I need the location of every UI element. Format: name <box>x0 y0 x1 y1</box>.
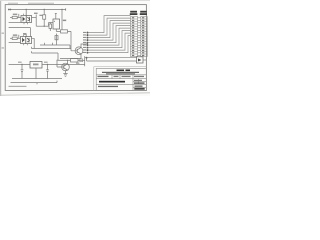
diode D2 <box>80 59 83 62</box>
resistor R3 <box>61 30 68 33</box>
node P3 <box>87 37 89 39</box>
wire J1 line lower <box>87 60 137 62</box>
ground rail <box>12 78 62 80</box>
label company name <box>117 70 125 72</box>
terminal strip TB1 <box>131 17 138 57</box>
wire K1 bottom <box>55 29 57 31</box>
node gnd junctions <box>35 78 36 79</box>
opto U3 <box>21 37 32 44</box>
wire vertical x36 <box>35 15 37 27</box>
label R1 <box>13 14 17 16</box>
wire 1 <box>88 16 131 33</box>
wire 2 <box>88 18 131 35</box>
power section <box>9 51 147 87</box>
node junction <box>44 26 45 27</box>
label pwr small 2 <box>44 62 48 63</box>
wire base node <box>36 25 48 27</box>
wire y45 link <box>40 43 70 49</box>
wire U1 out <box>32 17 37 19</box>
wire to edge <box>78 59 85 61</box>
label R4 <box>13 34 17 36</box>
wire input lower <box>9 22 21 24</box>
border frame <box>5 5 146 91</box>
scan edge left <box>0 0 1 96</box>
label Q2 <box>76 63 79 64</box>
wire 6 <box>88 28 131 45</box>
relay K1 <box>53 19 60 29</box>
wire rail stub <box>62 8 66 10</box>
wire 7 <box>88 31 131 48</box>
wire 8 <box>88 33 131 50</box>
TB2 screws <box>142 18 144 56</box>
transistor Q3 <box>62 63 70 71</box>
node P1 <box>87 32 89 34</box>
wire second input upper <box>9 27 31 29</box>
wire Q3 collector <box>67 60 69 64</box>
wire R1 to U1 <box>17 14 21 18</box>
label T1 <box>34 13 38 14</box>
transistor Q2 <box>75 47 83 55</box>
wire 3 <box>88 21 131 38</box>
TB1 screws <box>132 18 134 56</box>
resistor R1 <box>10 17 12 19</box>
node P5 <box>87 42 89 44</box>
wire V+ rail <box>11 9 62 11</box>
resistor R2 <box>43 10 45 15</box>
wire U2 gnd <box>35 68 37 79</box>
wire Q3 base <box>57 60 64 67</box>
node Q3 collector junction <box>67 60 68 61</box>
node rail junction <box>44 9 45 10</box>
label TB1 title <box>130 11 147 15</box>
label U2 <box>33 64 39 66</box>
node junction 57 <box>57 60 58 61</box>
card edge pin labels <box>83 32 86 53</box>
wire J1 feed <box>85 58 87 61</box>
wire input2 lower <box>9 42 21 44</box>
label address <box>102 72 139 73</box>
wire pwr input <box>9 64 30 66</box>
node V+ dots <box>8 9 10 11</box>
wire opto2 top pin <box>23 34 26 37</box>
wire resistor line <box>58 59 71 61</box>
node P7 <box>87 47 89 49</box>
node P2 <box>87 34 89 36</box>
wire 4 <box>88 23 131 40</box>
label row2 cells <box>98 76 109 77</box>
scan edge bottom <box>0 93 150 95</box>
opto U1 <box>21 16 32 23</box>
scan edge top <box>0 0 150 2</box>
left border zone ticks <box>2 33 4 49</box>
resistor R6 <box>55 36 58 40</box>
label small cells <box>134 80 142 81</box>
resistor R4 <box>10 37 12 39</box>
wire pwr out <box>42 64 85 66</box>
terminal strip TB2 <box>138 17 148 57</box>
wire opto1 top pin <box>25 10 27 16</box>
top border tick marks <box>8 3 54 4</box>
wire x30 drop <box>30 28 32 37</box>
wire y31 link <box>56 30 71 32</box>
wire low line <box>32 51 59 60</box>
TB links <box>138 18 141 56</box>
wire K1 top <box>55 14 57 20</box>
connector J1 <box>137 57 144 63</box>
node pwr junctions <box>21 64 22 65</box>
label TB2 title <box>140 11 147 13</box>
label K1 <box>63 20 66 22</box>
node rail junction <box>61 9 62 10</box>
wire 9 <box>88 36 131 53</box>
regulator U2 <box>30 62 42 69</box>
label fineprint <box>9 86 27 87</box>
capacitor C1 <box>21 65 24 79</box>
capacitor C2 <box>46 65 49 79</box>
wire U3 out <box>32 38 35 48</box>
wire edge vertical <box>84 56 86 66</box>
wire J1 line upper <box>87 57 137 59</box>
wire K1 coil down <box>56 34 58 46</box>
label title CONTROL RELAY CARD <box>99 81 125 83</box>
diode D1 <box>49 23 51 25</box>
wire y48.5 link <box>32 47 72 49</box>
resistor R5 <box>71 59 79 62</box>
label R2 <box>39 15 42 16</box>
node P8 <box>87 49 89 51</box>
wire x62 drop <box>61 10 63 30</box>
node rail-57 <box>56 64 57 65</box>
wire 5 <box>88 26 131 43</box>
wire Q2 base <box>71 31 77 50</box>
label bottom row <box>98 86 118 87</box>
node P4 <box>87 39 89 41</box>
wire Q2 collector <box>81 43 88 48</box>
wire bottom long <box>11 81 58 85</box>
ground symbol <box>63 70 67 76</box>
title block <box>94 67 147 91</box>
wire K1 left pin <box>49 23 54 27</box>
label pwr small 1 <box>18 62 22 63</box>
wire Q2 emitter <box>60 54 81 59</box>
node J1 feed dot <box>86 57 88 59</box>
node P6 <box>87 44 89 46</box>
node P9 <box>87 52 89 54</box>
